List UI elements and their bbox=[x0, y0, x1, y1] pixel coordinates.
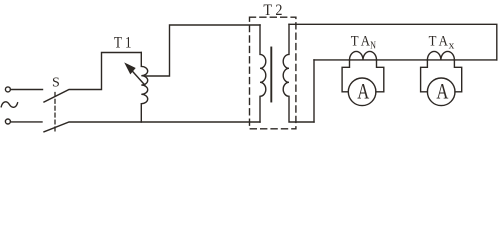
svg-text:T 2: T 2 bbox=[263, 2, 282, 19]
svg-text:S: S bbox=[52, 76, 60, 91]
svg-text:T 1: T 1 bbox=[114, 34, 132, 51]
svg-text:A: A bbox=[357, 79, 369, 104]
svg-text:T A: T A bbox=[351, 34, 370, 50]
svg-text:T A: T A bbox=[429, 34, 448, 50]
svg-text:x: x bbox=[449, 40, 455, 51]
svg-text:N: N bbox=[370, 40, 376, 51]
svg-text:A: A bbox=[436, 79, 448, 104]
